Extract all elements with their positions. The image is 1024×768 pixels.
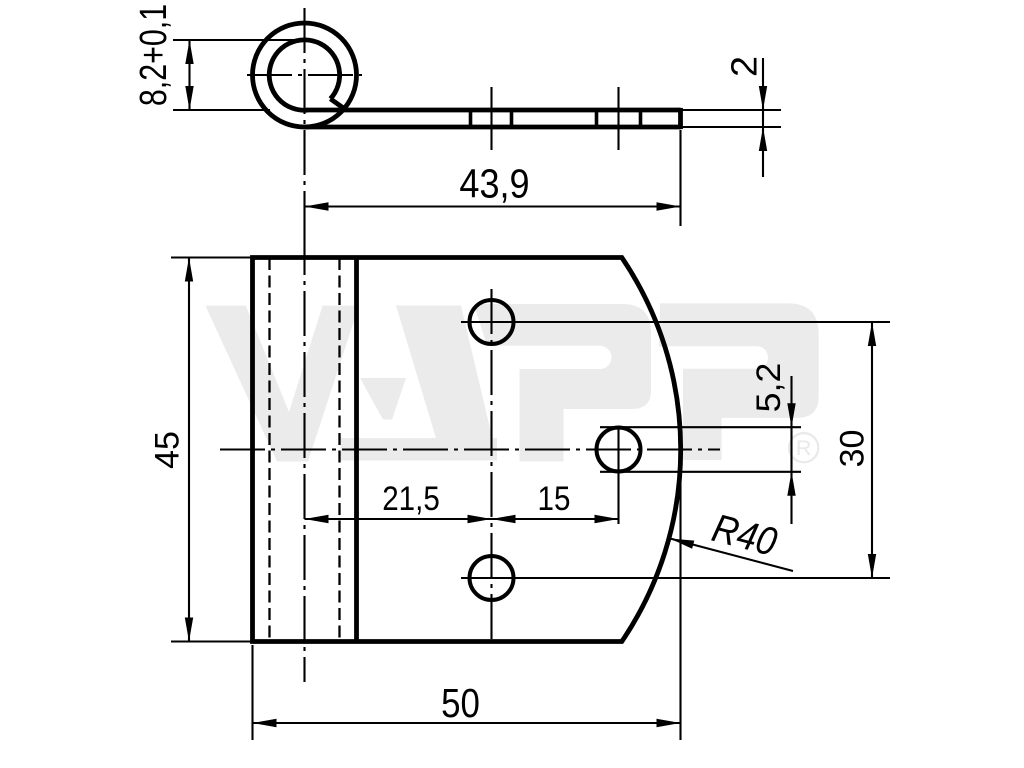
svg-text:R: R	[796, 436, 812, 460]
svg-text:21,5: 21,5	[382, 479, 440, 517]
svg-text:5,2: 5,2	[750, 363, 788, 413]
svg-text:2: 2	[724, 56, 764, 77]
svg-text:30: 30	[834, 430, 872, 468]
svg-text:8,2+0,1: 8,2+0,1	[133, 4, 175, 106]
svg-text:45: 45	[149, 431, 187, 469]
svg-text:50: 50	[441, 681, 480, 726]
svg-text:15: 15	[538, 479, 571, 517]
svg-text:43,9: 43,9	[459, 161, 529, 207]
